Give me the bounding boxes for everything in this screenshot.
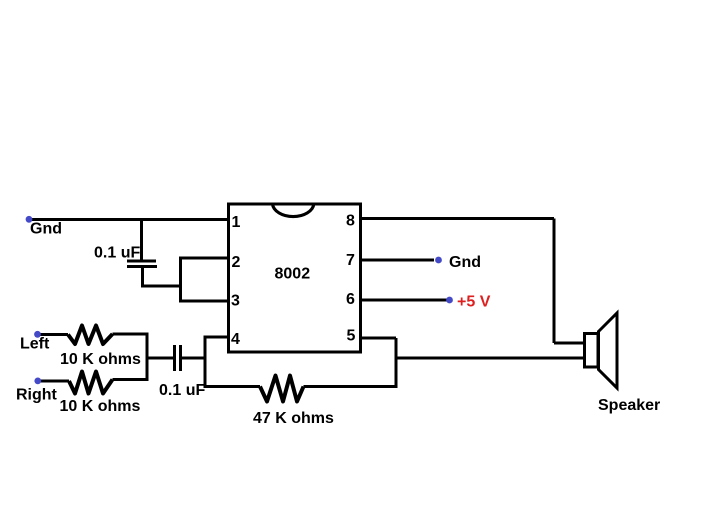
- svg-text:0.1 uF: 0.1 uF: [94, 245, 140, 262]
- svg-text:7: 7: [346, 252, 355, 269]
- svg-text:Right: Right: [16, 387, 58, 404]
- svg-text:+5 V: +5 V: [457, 294, 491, 311]
- svg-text:5: 5: [347, 328, 356, 345]
- svg-text:8: 8: [346, 213, 355, 230]
- svg-text:2: 2: [232, 254, 241, 271]
- svg-text:0.1 uF: 0.1 uF: [159, 382, 205, 399]
- svg-text:Gnd: Gnd: [449, 254, 481, 271]
- svg-text:47 K ohms: 47 K ohms: [253, 410, 334, 427]
- svg-text:4: 4: [231, 331, 240, 348]
- svg-text:1: 1: [232, 214, 241, 231]
- svg-text:Speaker: Speaker: [598, 397, 660, 414]
- svg-text:8002: 8002: [275, 266, 311, 283]
- svg-text:10 K ohms: 10 K ohms: [60, 398, 141, 415]
- svg-text:3: 3: [231, 293, 240, 310]
- svg-text:10 K ohms: 10 K ohms: [60, 351, 141, 368]
- svg-text:Left: Left: [20, 336, 50, 353]
- svg-text:6: 6: [346, 291, 355, 308]
- svg-text:Gnd: Gnd: [30, 221, 62, 238]
